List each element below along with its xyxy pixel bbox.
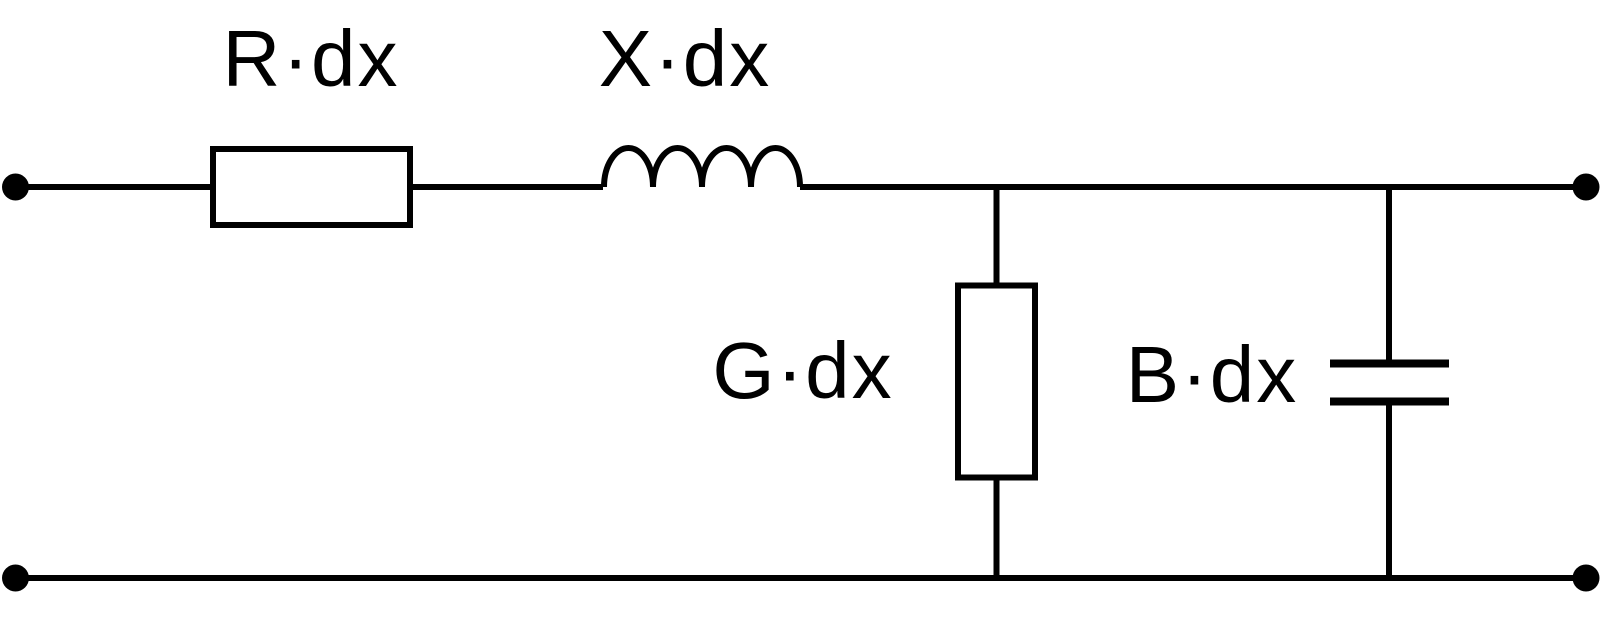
node: bottom-left terminal dot bbox=[2, 565, 29, 592]
wire: bottom rail bbox=[16, 575, 1587, 581]
node: top-left terminal dot bbox=[2, 174, 29, 201]
capacitor B (shunt), bottom plate bbox=[1330, 398, 1449, 406]
wire: top rail, L to top-right terminal bbox=[800, 184, 1586, 190]
inductor X (series), 4 humps bbox=[604, 148, 800, 187]
node: top-right terminal dot bbox=[1573, 174, 1600, 201]
wire: top rail, R to L bbox=[410, 184, 603, 190]
capacitor B (shunt), top plate bbox=[1330, 360, 1449, 368]
resistor R (series), body bbox=[213, 149, 410, 225]
wire: top rail, terminal to R bbox=[16, 184, 214, 190]
svg-text:B·dx: B·dx bbox=[1126, 330, 1299, 419]
wire: shunt G branch, top rail to G body bbox=[994, 187, 1000, 288]
svg-text:R·dx: R·dx bbox=[223, 14, 400, 103]
wire: shunt B branch, top rail to capacitor bbox=[1386, 187, 1392, 364]
wire: shunt G branch, G body to bottom rail bbox=[994, 475, 1000, 578]
svg-text:G·dx: G·dx bbox=[712, 326, 893, 415]
wire: shunt B branch, capacitor to bottom rail bbox=[1386, 402, 1392, 579]
svg-text:X·dx: X·dx bbox=[599, 14, 772, 103]
resistor G (shunt), body bbox=[958, 286, 1035, 478]
node: bottom-right terminal dot bbox=[1573, 565, 1600, 592]
